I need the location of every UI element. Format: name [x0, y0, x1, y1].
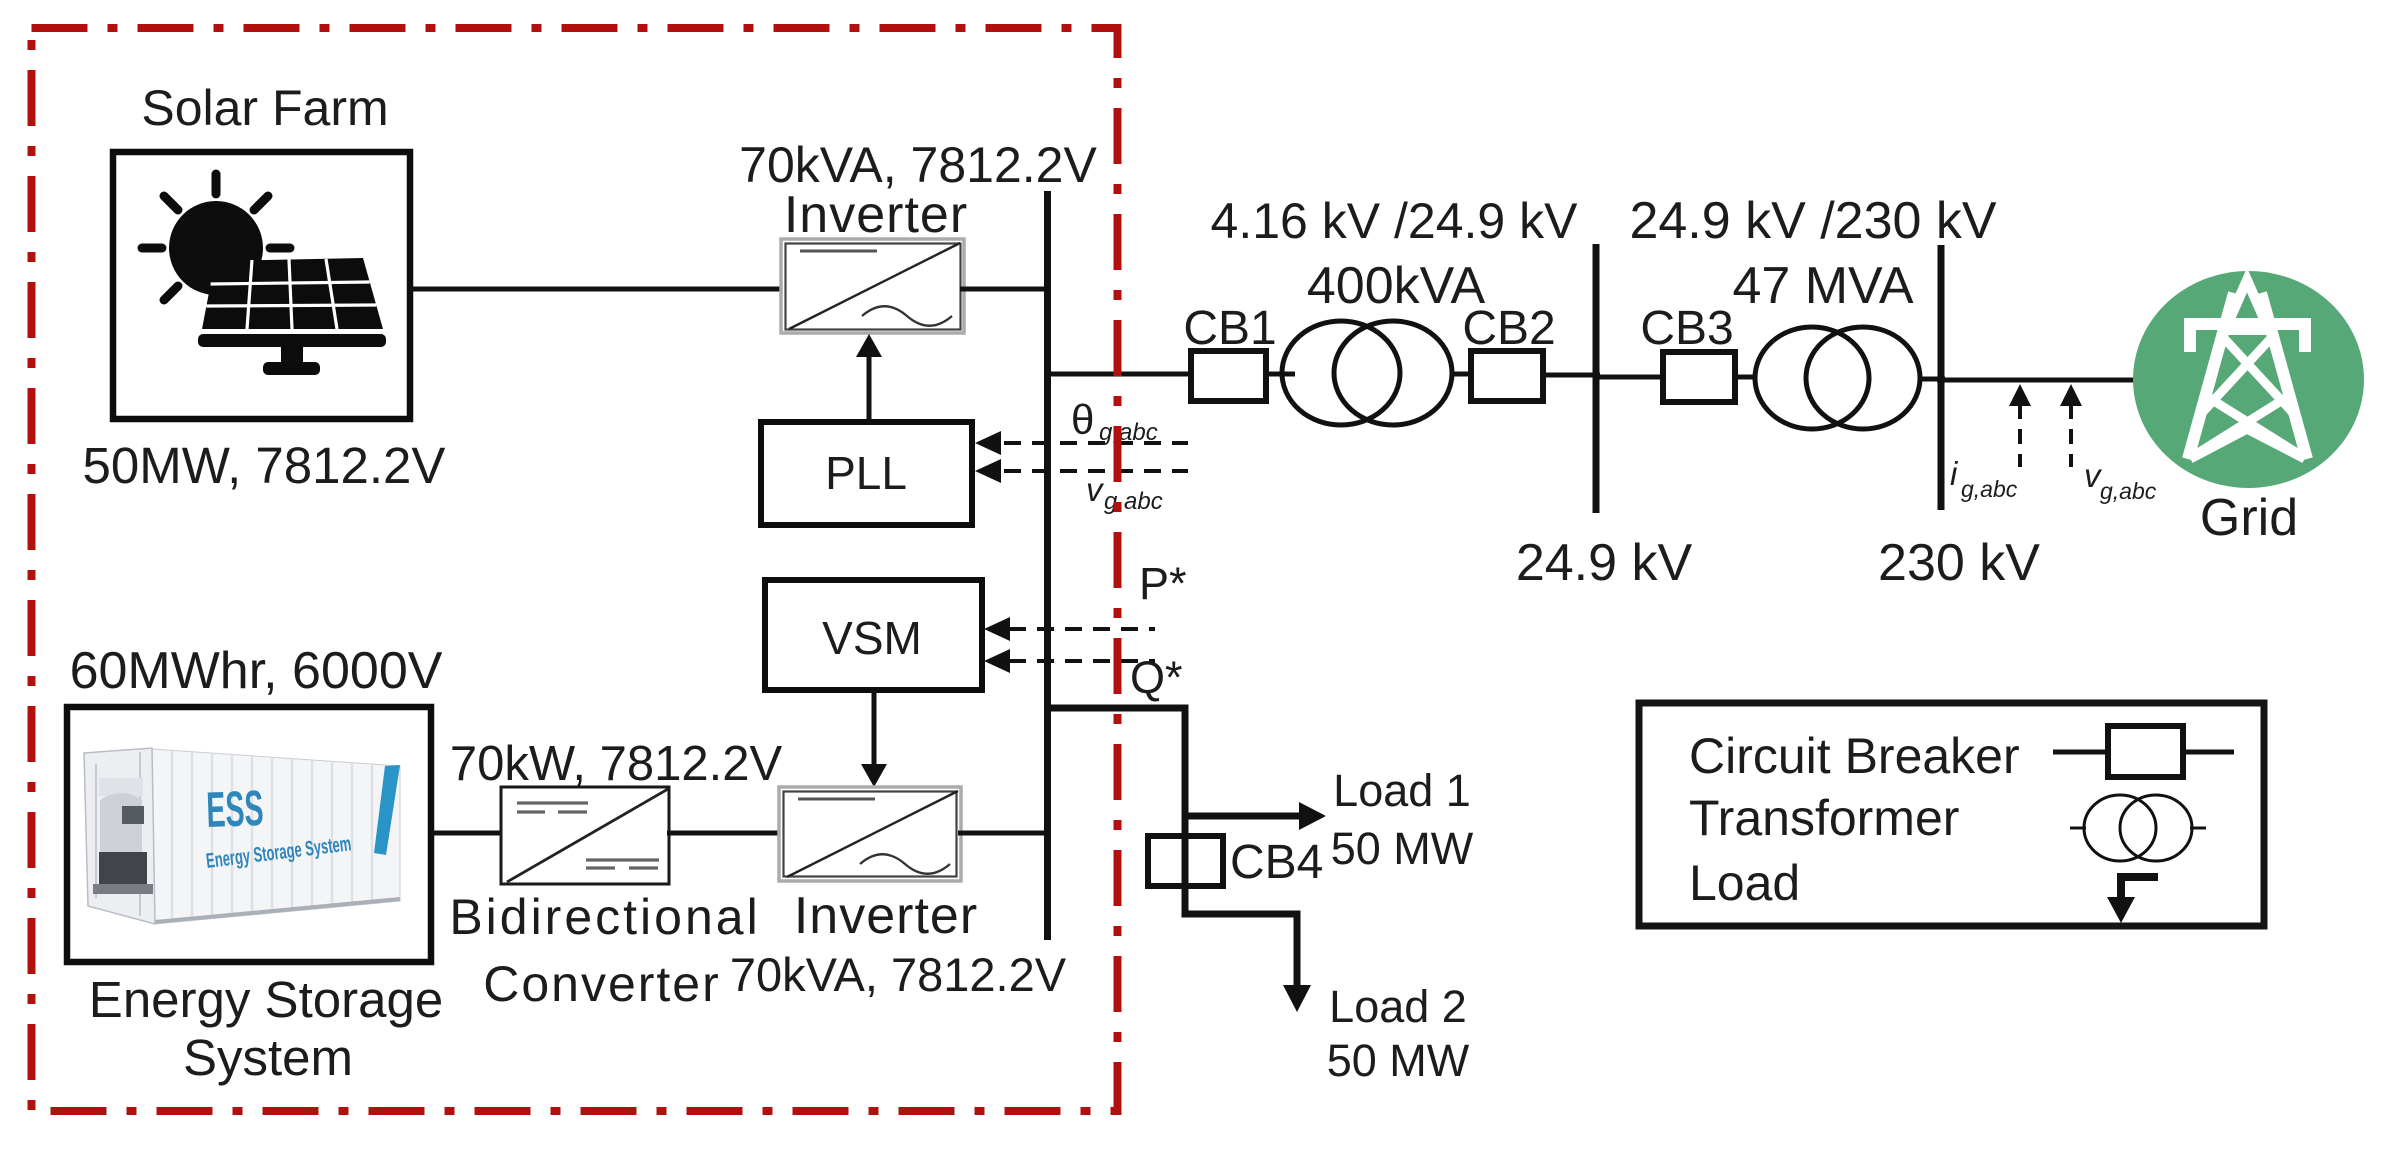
ESS container image: [84, 748, 400, 924]
svg-text:g,abc: g,abc: [1961, 476, 2018, 502]
PLL block: [761, 422, 972, 525]
svg-text:Circuit Breaker: Circuit Breaker: [1689, 728, 2020, 784]
inverter U2 (DC/AC): [779, 787, 961, 881]
svg-text:v: v: [1086, 471, 1105, 508]
svg-text:50 MW: 50 MW: [1327, 1035, 1470, 1086]
microgrid AC bus (vertical): [1044, 191, 1051, 940]
dashed arrow i g,abc: [2018, 404, 2022, 467]
svg-text:CB3: CB3: [1640, 302, 1733, 355]
energy storage system box: [67, 707, 431, 962]
svg-text:VSM: VSM: [822, 612, 922, 664]
wire 230kV bus to grid: [1937, 378, 2136, 383]
svg-text:CB2: CB2: [1462, 302, 1555, 355]
bidirectional converter (DC/DC): [501, 787, 669, 884]
svg-text:24.9 kV /230 kV: 24.9 kV /230 kV: [1629, 192, 1996, 250]
inverter U1 (DC/AC): [781, 239, 964, 333]
wire inverter U2 to bus: [958, 831, 1051, 836]
wire CB1 to transformer T1: [1266, 372, 1295, 377]
svg-text:Inverter: Inverter: [784, 186, 968, 244]
wire CB2 to 24.9kV bus: [1543, 373, 1600, 378]
wire T2 to 230kV bus: [1920, 377, 1945, 382]
230 kV bus: [1938, 245, 1945, 510]
microgrid boundary (red dash-dot): [32, 28, 1118, 1111]
svg-text:Energy Storage: Energy Storage: [89, 971, 443, 1028]
transformer T1: [1282, 321, 1452, 425]
solar farm icon (sun): [142, 174, 290, 300]
svg-text:g,abc: g,abc: [2100, 478, 2157, 504]
svg-text:70kVA, 7812.2V: 70kVA, 7812.2V: [730, 948, 1067, 1001]
transformer T2: [1755, 327, 1920, 429]
solar farm box PV1: [113, 152, 410, 419]
svg-text:g,abc: g,abc: [1099, 419, 1158, 446]
svg-text:Inverter: Inverter: [794, 887, 978, 945]
svg-text:P*: P*: [1139, 558, 1187, 609]
wire bus to CB3: [1593, 375, 1664, 380]
legend load symbol: [2121, 877, 2158, 900]
legend box: [1639, 703, 2264, 926]
svg-text:4.16 kV /24.9 kV: 4.16 kV /24.9 kV: [1211, 193, 1579, 249]
svg-text:70kW, 7812.2V: 70kW, 7812.2V: [450, 737, 783, 791]
wire solar farm to inverter U1: [410, 287, 786, 292]
load 1 arrow: [1185, 813, 1301, 820]
wire bus to CB1: [1044, 372, 1192, 377]
wire CB3 to transformer T2: [1735, 375, 1756, 380]
svg-text:230 kV: 230 kV: [1878, 534, 2040, 592]
svg-text:70kVA, 7812.2V: 70kVA, 7812.2V: [739, 137, 1097, 193]
wire T1 to CB2: [1452, 372, 1472, 377]
svg-text:CB4: CB4: [1230, 836, 1323, 889]
dashed arrow P* into VSM: [1009, 627, 1155, 631]
arrow VSM to inverter U2: [872, 690, 877, 768]
wire inverter U1 to bus: [960, 287, 1051, 292]
load 2 arrow head: [1283, 985, 1311, 1012]
dashed arrow v g,abc: [2069, 404, 2073, 467]
svg-text:Bidirectional: Bidirectional: [449, 889, 760, 945]
svg-text:50 MW: 50 MW: [1331, 823, 1474, 874]
svg-text:Grid: Grid: [2200, 489, 2298, 547]
svg-text:Converter: Converter: [483, 956, 721, 1012]
svg-text:400kVA: 400kVA: [1307, 257, 1486, 315]
svg-text:θ: θ: [1071, 396, 1094, 443]
svg-text:Transformer: Transformer: [1689, 790, 1959, 846]
svg-text:PLL: PLL: [825, 447, 907, 499]
svg-text:24.9 kV: 24.9 kV: [1516, 534, 1693, 592]
circuit breaker CB1: [1191, 351, 1266, 401]
circuit breaker CB2: [1471, 351, 1543, 401]
svg-text:ESS: ESS: [205, 780, 264, 838]
legend transformer symbol: [2070, 795, 2206, 861]
svg-text:CB1: CB1: [1183, 302, 1276, 355]
svg-text:Solar Farm: Solar Farm: [141, 80, 388, 136]
svg-text:60MWhr, 6000V: 60MWhr, 6000V: [70, 642, 443, 700]
solar farm icon (panel): [198, 258, 386, 375]
legend circuit breaker symbol: [2053, 750, 2234, 755]
VSM block: [765, 580, 982, 690]
wire bidirectional converter to inverter U2: [667, 831, 782, 836]
svg-text:Load 2: Load 2: [1329, 981, 1467, 1032]
svg-text:Q*: Q*: [1130, 652, 1183, 703]
circuit breaker CB3: [1663, 352, 1735, 402]
svg-text:Load: Load: [1689, 855, 1800, 911]
wire ESS to bidirectional converter: [431, 831, 503, 836]
dashed arrow theta into PLL: [1004, 441, 1188, 445]
svg-text:System: System: [183, 1029, 353, 1086]
svg-text:50MW, 7812.2V: 50MW, 7812.2V: [83, 437, 446, 494]
svg-text:Load 1: Load 1: [1333, 765, 1471, 816]
circuit breaker CB4: [1148, 836, 1223, 886]
arrow PLL to inverter U1: [867, 352, 872, 422]
grid icon (green circle with tower): [2133, 271, 2364, 488]
svg-text:g,abc: g,abc: [1104, 488, 1163, 515]
load branch wire from bus: [1044, 708, 1297, 988]
svg-text:47 MVA: 47 MVA: [1732, 257, 1913, 315]
dashed arrow v into PLL: [1004, 469, 1188, 473]
dashed arrow Q* into VSM: [1009, 659, 1155, 663]
24.9 kV bus: [1593, 244, 1600, 513]
